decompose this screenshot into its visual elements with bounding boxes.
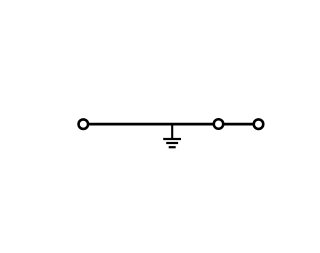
terminal circle (right clamping point): [254, 119, 264, 129]
ground (protective earth symbol): [163, 125, 181, 148]
terminal circle (left clamping point): [79, 119, 89, 129]
terminal circle (center clamping point): [214, 119, 224, 129]
wire (left terminal to center terminal): [83, 123, 218, 126]
wire (center terminal to right terminal): [219, 123, 259, 126]
